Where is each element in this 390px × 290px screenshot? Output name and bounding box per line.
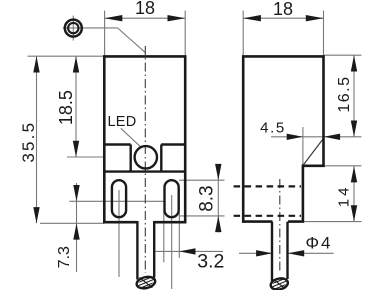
arrow 18.5 top <box>73 56 79 72</box>
svg-text:35.5: 35.5 <box>19 121 38 163</box>
dimension line phi4 left part <box>239 252 272 254</box>
LED leader diagonal <box>121 128 141 147</box>
arrow 16.5 top <box>351 55 357 71</box>
arrow phi4 right <box>256 250 272 256</box>
bottom extension line left view <box>40 222 104 224</box>
step extension line <box>324 165 362 167</box>
arrow 35.5 top <box>33 56 39 72</box>
dimension line 14 <box>353 166 355 222</box>
arrow 8.3 up <box>215 216 221 232</box>
centerline left view <box>144 46 146 273</box>
right cable end ellipse <box>265 270 294 290</box>
arrow 35.5 bottom <box>33 207 39 223</box>
arrow 4.5 left <box>324 134 340 140</box>
svg-text:Φ4: Φ4 <box>305 234 332 253</box>
arrow 3.2 left <box>179 248 195 254</box>
left slot centerline extension <box>118 190 120 277</box>
slot center extension line horizontal <box>69 200 164 202</box>
right slot centerline extension <box>171 195 173 289</box>
svg-text:LED: LED <box>107 114 136 130</box>
left cable left edge <box>136 221 138 280</box>
arrow 8.3 down <box>215 164 221 180</box>
svg-text:18: 18 <box>135 0 155 18</box>
extension line 3.2 right <box>178 212 180 258</box>
arrow 18R left <box>243 15 261 21</box>
arrow 18L left <box>105 15 123 21</box>
dimension line 3.2 <box>156 250 224 252</box>
dimension line 7.3 <box>76 183 78 272</box>
right view body outline <box>243 56 323 221</box>
right cable right edge <box>286 222 288 279</box>
svg-text:4.5: 4.5 <box>260 119 286 136</box>
thin extension/dimension lines, left view <box>28 11 225 289</box>
svg-text:14: 14 <box>335 185 352 208</box>
centerline right view <box>279 179 281 272</box>
svg-text:18: 18 <box>273 0 293 19</box>
extension line 18-dim left <box>104 11 106 56</box>
screw leader diagonal <box>118 28 146 53</box>
hidden slot dashed line bottom <box>234 215 301 217</box>
arrow 18.5 bottom <box>73 141 79 157</box>
dimension line 4.5 <box>271 136 362 138</box>
extension line 18-dim right <box>184 11 186 56</box>
arrow 14 bottom <box>351 205 357 221</box>
arrow 16.5 bottom <box>351 121 357 137</box>
right cable left edge <box>271 222 273 281</box>
top extension line right view <box>324 54 362 56</box>
dimension line phi4 right part <box>288 252 334 254</box>
svg-text:16.5: 16.5 <box>336 76 353 113</box>
dimension line 35.5 <box>36 56 38 223</box>
extension line 8.3 top <box>179 179 225 181</box>
chamfer diagonal <box>303 139 323 166</box>
extension line 18-dim right view left <box>242 11 244 56</box>
extension line 8.3 bottom <box>179 215 225 217</box>
LED center extension line <box>67 156 104 158</box>
svg-text:18.5: 18.5 <box>56 90 76 125</box>
full width groove line <box>104 170 185 172</box>
arrow 7.3 up <box>73 223 79 239</box>
arrowheads <box>33 15 357 257</box>
dimension line 16.5 <box>353 55 355 137</box>
hidden slot dashed line top <box>234 185 301 187</box>
dimension line 18.5 <box>75 56 77 157</box>
svg-text:8.3: 8.3 <box>197 185 218 211</box>
arrow 4.5 right <box>287 134 303 140</box>
screw symbol crosshair vertical <box>72 16 74 41</box>
svg-text:3.2: 3.2 <box>197 251 224 273</box>
notch left vertical <box>129 145 131 172</box>
screw head symbol inner circle <box>68 23 78 33</box>
dimension line 8.3 <box>217 164 219 233</box>
right mounting slot <box>165 180 179 217</box>
top extension line left view <box>28 55 110 57</box>
arrow phi4 left <box>288 250 304 256</box>
dimension line 18 right view <box>243 17 323 19</box>
left cable right edge <box>153 221 155 278</box>
svg-text:7.3: 7.3 <box>56 246 73 268</box>
arrow 18R right <box>306 15 324 21</box>
arrow 14 top <box>351 166 357 182</box>
screw symbol crosshair horizontal <box>63 27 118 29</box>
left cable end ellipse <box>131 268 162 290</box>
notch right vertical <box>160 145 162 172</box>
thin extension/dimension lines, right view <box>239 11 362 254</box>
arrow 7.3 down <box>73 185 79 201</box>
extension line 3.2 left <box>163 211 165 262</box>
left mounting slot <box>112 180 126 217</box>
seam line left segment <box>104 143 130 145</box>
left view body outline <box>104 56 185 222</box>
LED circle <box>135 146 157 168</box>
screw head symbol outer circle <box>65 20 82 37</box>
extension line 18-dim right view right <box>323 11 325 56</box>
arrow 18L right <box>168 15 186 21</box>
bottom extension line right view <box>303 221 362 223</box>
dimension line 18 left view <box>105 17 186 19</box>
extension line 4.5 vertical <box>302 127 304 165</box>
seam line right segment <box>161 143 185 145</box>
